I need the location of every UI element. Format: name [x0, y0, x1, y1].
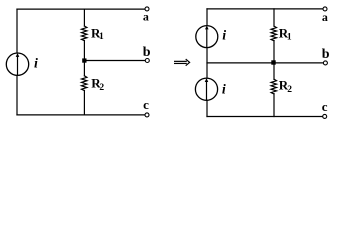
- svg-text:i: i: [34, 57, 38, 72]
- svg-text:i: i: [222, 29, 226, 44]
- svg-text:1: 1: [287, 32, 292, 42]
- svg-text:c: c: [143, 97, 149, 112]
- svg-text:c: c: [322, 99, 328, 114]
- svg-text:1: 1: [99, 32, 104, 42]
- svg-text:i: i: [222, 82, 226, 97]
- svg-text:b: b: [143, 45, 151, 60]
- svg-text:a: a: [143, 10, 149, 24]
- svg-text:b: b: [322, 47, 330, 62]
- svg-text:a: a: [322, 10, 328, 24]
- svg-text:2: 2: [287, 85, 292, 95]
- svg-text:2: 2: [99, 83, 104, 93]
